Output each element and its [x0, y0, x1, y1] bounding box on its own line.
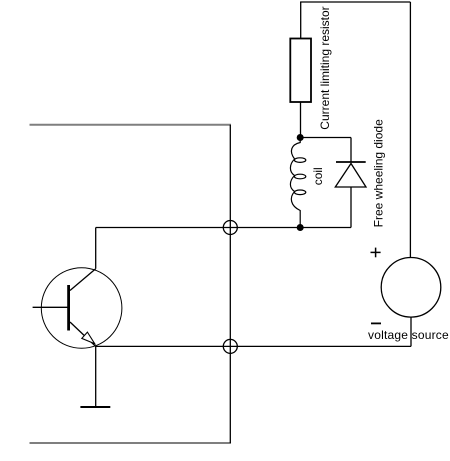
svg-text:Free wheeling diode: Free wheeling diode — [372, 119, 386, 227]
wire: top loop horizontal — [300, 1, 410, 3]
wire: emitter to node 2 (horizontal) — [96, 345, 231, 347]
junction dot (bottom of coil) — [297, 224, 304, 231]
wire: bottom of coil/diode horizontal to node 1 — [230, 227, 351, 229]
wire: node 1 to collector (horizontal) — [96, 227, 231, 229]
coil L — [290, 138, 305, 228]
resistor R (current limiting resistor) — [290, 39, 311, 103]
junction dot (top of coil) — [297, 134, 304, 141]
wire: top left vertical into resistor — [300, 2, 302, 39]
node 2 (open circle on bus) — [223, 339, 237, 353]
svg-text:coil: coil — [311, 167, 325, 185]
wire: base lead — [33, 306, 69, 308]
transistor emitter diagonal — [70, 322, 96, 346]
wire: node 2 to voltage source (horizontal) — [230, 345, 411, 347]
plus sign — [371, 248, 381, 258]
transistor emitter arrowhead (open) — [82, 332, 95, 344]
diode branch: vertical above bar — [350, 138, 352, 163]
wire: right edge bus (vertical, x=230) — [229, 125, 231, 443]
wire: resistor bottom to junction — [300, 102, 302, 138]
wire: diode anode down — [350, 187, 352, 228]
transistor Q1 circle — [41, 268, 122, 349]
diode cathode bar — [336, 161, 366, 163]
wire: voltage source bottom vertical — [410, 317, 412, 346]
diode D triangle (free wheeling diode) — [335, 164, 366, 188]
ground — [80, 406, 110, 408]
transistor base bar — [67, 285, 70, 331]
wire: top right vertical to voltage source — [409, 2, 411, 258]
transistor collector diagonal — [70, 269, 96, 291]
wire: emitter down to ground — [95, 346, 97, 407]
container box bottom edge (gray) — [30, 442, 232, 444]
svg-text:voltage source: voltage source — [368, 328, 449, 342]
container box top edge (gray) — [30, 124, 232, 126]
wire: collector vertical — [95, 228, 97, 269]
voltage source V1 circle — [381, 258, 441, 318]
svg-text:Current limiting resistor: Current limiting resistor — [318, 6, 332, 129]
node 1 (open circle on bus) — [223, 221, 237, 235]
minus sign — [371, 322, 381, 324]
wire: junction to diode branch (horizontal) — [300, 137, 351, 139]
